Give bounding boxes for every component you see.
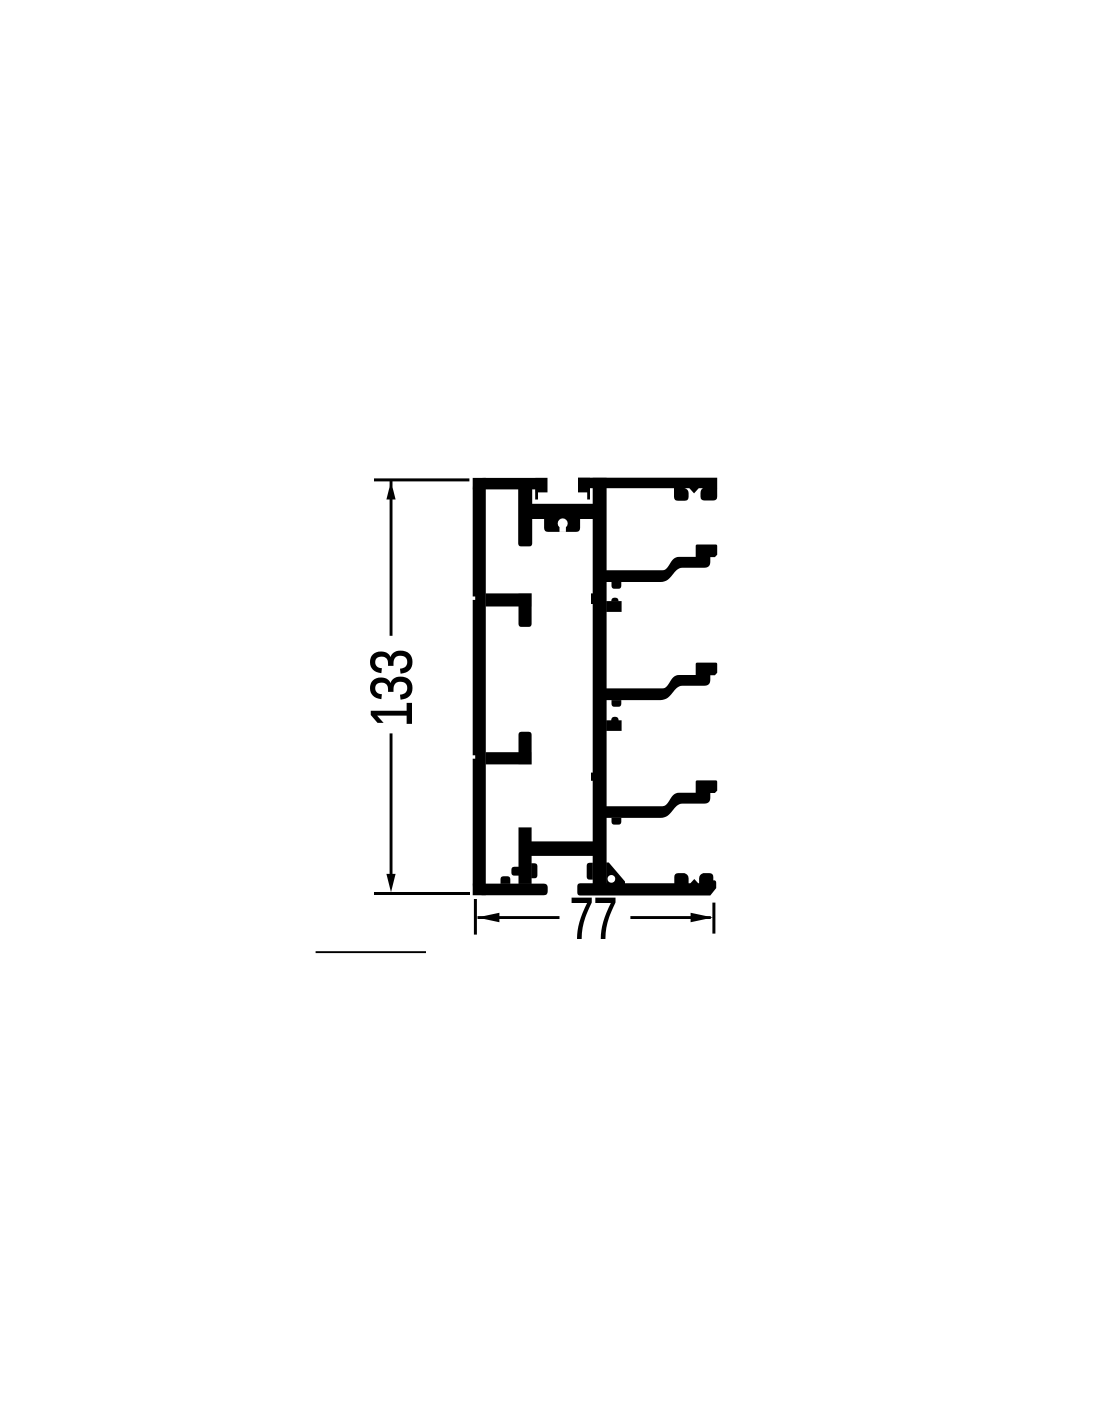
bottom right curl blob left xyxy=(674,873,688,884)
dim 77 right arrowhead xyxy=(691,913,713,922)
top bar left end lip xyxy=(535,478,547,493)
c-stub 1 bump xyxy=(611,598,618,602)
top bar left tooth xyxy=(535,489,538,500)
bridge curls strip xyxy=(544,519,580,532)
middle wall xyxy=(593,478,607,884)
hook arm 2 xyxy=(605,663,717,701)
top bar right tooth xyxy=(587,489,590,500)
bottom right curl blob right xyxy=(699,873,713,884)
serration blob on bar xyxy=(501,876,511,883)
dim 133 arrow up xyxy=(386,481,395,499)
c-stub 1 body xyxy=(607,601,622,612)
hook arm 3 xyxy=(605,780,717,818)
svg-text:133: 133 xyxy=(360,649,425,727)
gusset xyxy=(607,863,625,884)
top bar right xyxy=(578,478,717,489)
bottom bar right xyxy=(577,880,716,895)
hook arm 1 xyxy=(605,545,717,583)
bridge bar xyxy=(531,504,593,519)
dim 133 line upper xyxy=(390,481,393,636)
bridge curls pocket (white) xyxy=(558,518,568,528)
top bar right lip xyxy=(578,478,590,493)
top right curl center peak xyxy=(689,488,699,493)
dim 77 right arrow line xyxy=(630,916,710,919)
dim 77 left arrow line xyxy=(478,916,560,919)
finger C (bottom) xyxy=(519,827,532,883)
stray thin line bottom left xyxy=(316,951,426,953)
dim 77 right tick xyxy=(712,903,715,934)
c-stub 2 bump xyxy=(611,717,618,721)
dim 133 line lower xyxy=(390,733,393,878)
finger B (up) xyxy=(519,732,532,765)
T hanger under top bar xyxy=(518,489,532,546)
dim 133 arrow down xyxy=(386,874,395,892)
wall notch upper (white) xyxy=(471,597,476,600)
foot bump xyxy=(587,863,593,880)
under-arm bump 2 xyxy=(612,700,622,707)
stub B bar xyxy=(486,752,532,764)
wall notch lower (white) xyxy=(471,755,476,758)
wall bead upper xyxy=(591,593,594,604)
dim 77 left tick xyxy=(474,899,477,935)
finger A (down) xyxy=(519,593,532,627)
crossbar bottom xyxy=(531,841,593,856)
serration nub right of finger C xyxy=(532,863,538,878)
dim 133 top extension line xyxy=(374,478,469,481)
svg-text:77: 77 xyxy=(570,886,618,951)
bottom right curl center peak xyxy=(690,879,699,884)
bottom bar left xyxy=(473,884,548,896)
top right curl blob right xyxy=(701,488,718,501)
left wall xyxy=(473,478,486,895)
dim 133 bottom extension line xyxy=(374,892,470,895)
gusset hole (white) xyxy=(608,875,616,883)
serration nub left of finger C xyxy=(511,867,518,876)
bridge curls neck (white) xyxy=(560,523,566,532)
wall bead lower xyxy=(591,773,594,781)
c-stub 2 body xyxy=(607,720,622,731)
under-arm bump 3 xyxy=(612,818,622,825)
stub A bar xyxy=(486,593,532,606)
top bar left xyxy=(473,478,548,490)
dim 77 left arrowhead xyxy=(477,913,499,922)
top right curl blob left xyxy=(674,488,689,501)
under-arm bump 1 xyxy=(612,582,622,589)
